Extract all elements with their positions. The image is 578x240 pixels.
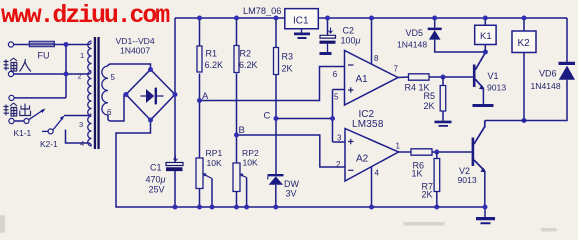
terminal input N	[8, 71, 13, 76]
junction bottom rail RP1	[197, 205, 202, 210]
svg-text:LM78_06: LM78_06	[243, 6, 281, 16]
svg-text:R5: R5	[423, 91, 435, 101]
svg-text:470μ: 470μ	[145, 175, 165, 185]
potentiometer RP1	[196, 158, 212, 207]
junction input N node	[63, 72, 68, 77]
junction K2 rail	[521, 16, 526, 21]
terminal output L	[9, 95, 14, 100]
svg-text:6: 6	[332, 69, 337, 79]
capacitor C1	[166, 156, 183, 172]
diode VD5	[428, 18, 486, 52]
scan smudge artifacts	[0, 215, 557, 233]
terminal input L	[8, 42, 13, 47]
label 输入 (input) drawn glyphs	[3, 58, 31, 72]
svg-text:VD5: VD5	[405, 28, 423, 38]
resistor R3 column wires	[275, 18, 277, 174]
wire bottom ground rail with jog from bridge minus corner	[116, 120, 485, 207]
transformer T primary winding	[88, 41, 92, 146]
resistor R2	[234, 46, 239, 73]
svg-text:4: 4	[374, 169, 379, 178]
svg-text:9013: 9013	[457, 175, 476, 185]
wire switch to transformer tap 4	[65, 130, 88, 144]
resistor R7	[434, 152, 440, 207]
svg-text:1N4007: 1N4007	[120, 46, 150, 56]
svg-text:3V: 3V	[285, 189, 296, 199]
wire fuse to transformer tap 1	[54, 44, 89, 46]
junction node A	[197, 98, 202, 103]
svg-text:DW: DW	[284, 179, 299, 189]
junction top rail R1	[197, 16, 202, 21]
svg-text:K2-1: K2-1	[40, 139, 58, 149]
junction bottom rail DW	[273, 205, 278, 210]
svg-text:R3: R3	[281, 52, 293, 62]
wire input L to fuse	[14, 44, 29, 46]
node B wire to A2 inverting input	[236, 135, 345, 167]
label 输出 (output) drawn glyphs	[3, 103, 30, 116]
svg-text:3: 3	[79, 120, 83, 129]
wire A2 output to R6	[398, 151, 411, 153]
junction bridge bottom	[148, 118, 153, 123]
transistor V1	[473, 53, 486, 105]
ground V1 emitter	[472, 104, 493, 107]
svg-text:A: A	[202, 91, 209, 102]
svg-text:9013: 9013	[487, 82, 506, 92]
svg-text:1: 1	[80, 51, 84, 60]
wire top supply rail	[175, 17, 567, 19]
svg-text:C: C	[263, 111, 270, 122]
wire secondary 5 to bridge top	[108, 64, 151, 70]
junction node C branch	[330, 116, 335, 121]
junction K2 collector wire	[521, 118, 526, 123]
transistor V2	[472, 121, 486, 208]
ground R5	[434, 121, 451, 127]
svg-text:5: 5	[334, 93, 339, 102]
transformer primary tap leads	[88, 43, 91, 146]
op-amp A2	[345, 129, 399, 182]
svg-text:4: 4	[80, 139, 84, 148]
bridge rectifier VD1--VD4 diamond	[126, 70, 175, 121]
junction V2 emitter rail end	[482, 205, 487, 210]
resistor R2 column wires	[235, 18, 237, 163]
op-amp A1	[344, 51, 398, 106]
svg-text:2K: 2K	[423, 101, 434, 111]
junction pin 8 rail	[369, 16, 374, 21]
svg-text:www.dziuu.com: www.dziuu.com	[1, 1, 170, 30]
capacitor C2	[319, 18, 335, 55]
svg-text:RP1: RP1	[205, 148, 222, 158]
svg-text:K1-1: K1-1	[13, 128, 31, 138]
svg-text:A1: A1	[355, 74, 368, 85]
svg-text:8: 8	[374, 54, 379, 63]
op-amp A1 plus sign	[348, 87, 354, 93]
svg-text:IC1: IC1	[293, 16, 309, 27]
resistor R3	[273, 48, 278, 75]
junction bottom rail RP1 wiper	[209, 205, 214, 210]
junction node C	[273, 116, 278, 121]
ground IC1	[294, 29, 310, 39]
switch K1-1 contact and blade	[24, 109, 46, 124]
wire secondary 6 to bridge left	[108, 95, 126, 122]
svg-text:1: 1	[395, 142, 400, 151]
svg-text:R1: R1	[205, 49, 217, 59]
junction R4 R5	[440, 75, 445, 80]
op-amp A1 minus sign	[348, 64, 354, 66]
wire output N to switch K1-1	[14, 120, 24, 122]
op-amp A2 minus sign	[348, 169, 354, 171]
bridge inner diode symbol	[140, 88, 163, 105]
svg-text:K1: K1	[480, 31, 492, 42]
node A wire to A1 inverting input	[199, 67, 344, 101]
wire output L to junction vertical	[14, 97, 66, 99]
junction bridge top	[148, 67, 153, 72]
junction fuse node	[63, 42, 68, 47]
wire bridge plus output column through C1	[174, 18, 176, 207]
resistor R1	[197, 46, 202, 72]
junction bottom rail RP2 wiper	[244, 205, 249, 210]
svg-text:6.2K: 6.2K	[204, 60, 223, 70]
svg-text:R2: R2	[239, 49, 251, 59]
zener diode DW	[267, 174, 283, 207]
svg-text:A2: A2	[356, 154, 369, 165]
node C wire to comparator references	[276, 90, 345, 143]
resistor R6	[411, 149, 432, 155]
resistor R1 column wires	[198, 18, 200, 158]
svg-text:2K: 2K	[281, 64, 292, 74]
svg-text:C2: C2	[342, 26, 354, 36]
resistor R5	[440, 77, 446, 121]
transformer secondary winding	[102, 66, 108, 115]
wire input N to transformer tap 2	[14, 73, 89, 75]
potentiometer RP2	[233, 163, 247, 207]
junction top rail R2	[234, 16, 239, 21]
junction C2 rail	[325, 16, 330, 21]
fuse FU	[29, 41, 54, 46]
svg-text:C1: C1	[150, 163, 162, 173]
junction bridge right	[172, 92, 177, 97]
svg-text:1N4148: 1N4148	[397, 40, 427, 50]
transformer core bars	[94, 37, 96, 149]
wire switch to transformer tap 3	[64, 115, 89, 117]
svg-text:V1: V1	[487, 71, 498, 81]
svg-text:10K: 10K	[242, 158, 258, 168]
switch K2-1 stub contact and blade	[42, 116, 65, 134]
relay coil K1	[475, 18, 496, 52]
wire A1 output to R4	[398, 76, 409, 79]
wire R6 to V2 base	[432, 151, 472, 153]
svg-text:2: 2	[336, 160, 341, 169]
svg-text:FU: FU	[37, 51, 49, 61]
svg-text:100μ: 100μ	[340, 36, 360, 46]
junction bridge left	[123, 92, 128, 97]
junction node B	[234, 133, 239, 138]
svg-text:3: 3	[337, 134, 342, 143]
svg-text:1K: 1K	[411, 168, 422, 178]
wire junction vertical to lower input and output	[65, 45, 67, 98]
svg-text:2K: 2K	[421, 189, 432, 199]
terminal output N	[9, 118, 14, 123]
junction VD5 K1 collector	[483, 50, 488, 55]
regulator IC1 LM7806	[285, 9, 319, 29]
svg-text:VD1--VD4: VD1--VD4	[115, 36, 154, 46]
svg-text:2: 2	[77, 72, 81, 81]
junction VD5 rail	[432, 16, 437, 21]
junction K1 rail	[483, 16, 488, 21]
svg-text:K2: K2	[517, 38, 530, 49]
junction top rail R3	[273, 16, 278, 21]
svg-text:25V: 25V	[148, 185, 164, 195]
junction R6 R7	[434, 150, 439, 155]
svg-text:LM358: LM358	[352, 119, 384, 130]
junction bottom rail R7	[434, 205, 439, 210]
wire A1 pin 8 supply	[370, 18, 372, 64]
svg-text:6.2K: 6.2K	[239, 60, 258, 70]
junction bottom rail RP2	[234, 205, 239, 210]
diode VD6	[485, 18, 575, 121]
op-amp A2 plus sign	[348, 139, 354, 145]
wire A2 pin 4 ground	[370, 167, 372, 207]
wire R4 to V1 base	[429, 76, 473, 78]
svg-text:B: B	[238, 125, 244, 136]
svg-text:10K: 10K	[206, 158, 222, 168]
junction bottom rail C1	[172, 205, 177, 210]
svg-text:VD6: VD6	[539, 69, 557, 79]
svg-text:5: 5	[110, 73, 115, 82]
ground V2 emitter	[476, 207, 495, 224]
relay coil K2	[512, 18, 536, 121]
resistor R4	[408, 74, 429, 80]
svg-text:1N4148: 1N4148	[530, 81, 560, 91]
junction bottom rail pin 4	[369, 205, 374, 210]
svg-text:7: 7	[393, 65, 398, 74]
